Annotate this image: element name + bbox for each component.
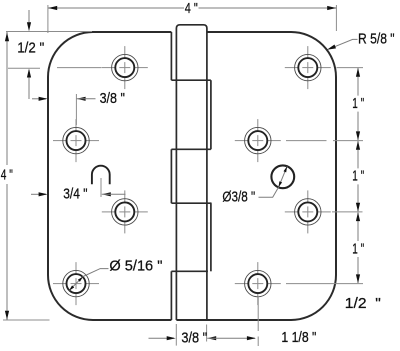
svg-text:R 5/8 ": R 5/8 " — [358, 32, 395, 48]
svg-text:3/8 ": 3/8 " — [100, 91, 125, 107]
svg-text:Ø 5/16 ": Ø 5/16 " — [109, 259, 162, 275]
svg-text:4 ": 4 " — [185, 1, 198, 17]
svg-text:Ø3/8 ": Ø3/8 " — [222, 190, 255, 206]
svg-text:3/4 ": 3/4 " — [63, 187, 87, 203]
svg-text:1/2 ": 1/2 " — [17, 41, 44, 57]
svg-text:1/2 ": 1/2 " — [345, 296, 381, 312]
svg-text:4 ": 4 " — [1, 167, 13, 183]
svg-text:1 1/8 ": 1 1/8 " — [281, 330, 316, 346]
svg-text:1 ": 1 " — [352, 241, 364, 257]
svg-text:1 ": 1 " — [352, 169, 364, 185]
svg-text:1 ": 1 " — [352, 96, 364, 112]
svg-text:3/8 ": 3/8 " — [181, 330, 207, 346]
